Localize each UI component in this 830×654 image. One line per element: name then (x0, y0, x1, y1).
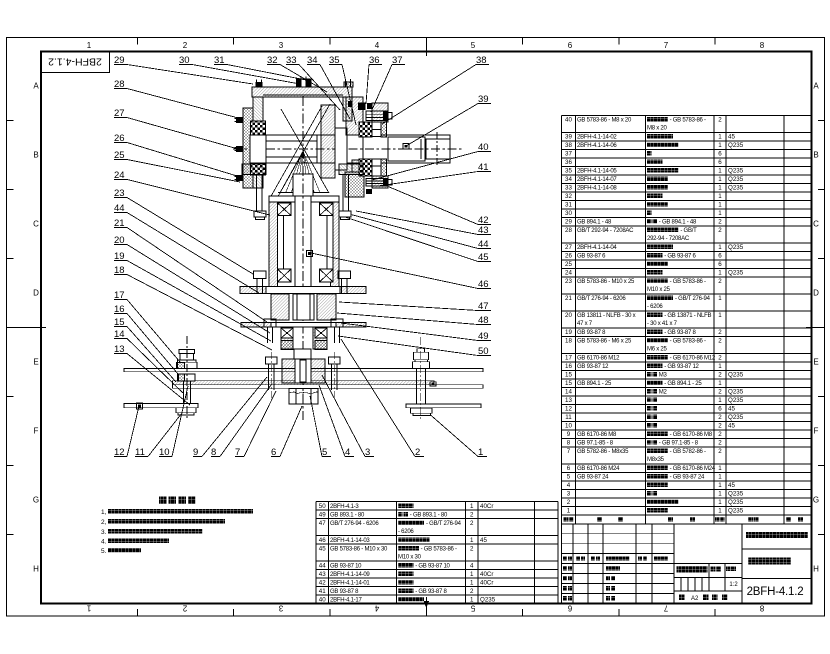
svg-text:Q235: Q235 (728, 414, 744, 421)
svg-text:38: 38 (565, 142, 572, 149)
deck far-left bolt foot (176, 408, 196, 413)
svg-text:45: 45 (728, 406, 735, 413)
svg-text:1: 1 (470, 537, 474, 544)
deck far-right bolt centerline (420, 337, 422, 419)
column bottom flange plate (240, 287, 366, 294)
svg-text:2: 2 (718, 423, 722, 430)
svg-text:GB 93-87 10: GB 93-87 10 (330, 563, 362, 569)
svg-text:50: 50 (319, 503, 326, 510)
svg-text:Q235: Q235 (480, 596, 496, 603)
vertical shaft (295, 174, 311, 290)
svg-text:36: 36 (565, 159, 572, 166)
svg-text:1: 1 (718, 363, 722, 370)
middle bearing seat right (317, 294, 336, 320)
left bearing end cap (243, 108, 253, 188)
svg-text:8: 8 (567, 440, 571, 447)
svg-text:4: 4 (375, 41, 380, 50)
top bolt right (344, 82, 353, 87)
svg-text:40: 40 (565, 117, 572, 124)
mid side bolt right (331, 319, 343, 327)
svg-text:6: 6 (718, 261, 722, 268)
svg-text:40Cr: 40Cr (480, 503, 493, 510)
svg-text:16: 16 (565, 363, 572, 370)
svg-text:45: 45 (728, 482, 735, 489)
title block signature rows labels (563, 566, 567, 570)
deck bolt center-right (329, 357, 341, 364)
svg-text:28: 28 (565, 227, 572, 234)
left bearing lower (251, 160, 266, 175)
svg-text:GB/T 292-94 - 7208AC: GB/T 292-94 - 7208AC (577, 228, 634, 234)
mid side bolt left (264, 319, 276, 327)
svg-text:1: 1 (718, 270, 722, 277)
svg-text:10: 10 (565, 423, 572, 430)
deck bolt center-left (266, 357, 278, 364)
svg-text:45: 45 (319, 545, 326, 552)
svg-text:3: 3 (278, 604, 283, 613)
svg-text:2: 2 (718, 355, 722, 362)
svg-text:43: 43 (319, 571, 326, 578)
svg-text:4: 4 (470, 562, 474, 569)
svg-text:42: 42 (319, 579, 326, 586)
svg-text:26: 26 (565, 253, 572, 260)
svg-text:1: 1 (87, 41, 92, 50)
flange nut left (254, 211, 266, 217)
deck bolt stack far-left (179, 350, 195, 354)
svg-text:18: 18 (565, 338, 572, 345)
svg-text:29: 29 (565, 219, 572, 226)
zone tick marks top (136, 38, 138, 45)
svg-text:1,: 1, (101, 509, 107, 516)
svg-text:37: 37 (565, 151, 572, 158)
svg-text:Q235: Q235 (728, 142, 744, 149)
svg-text:1:2: 1:2 (729, 582, 738, 588)
svg-text:2BFH-4.1-3: 2BFH-4.1-3 (330, 504, 359, 510)
right cap bolt lower (366, 179, 388, 187)
bevel gear pitch cone lines (276, 104, 330, 200)
svg-text:2: 2 (718, 414, 722, 421)
svg-text:1: 1 (718, 508, 722, 515)
svg-text:41: 41 (319, 588, 326, 595)
svg-text:15: 15 (565, 380, 572, 387)
svg-text:GB 5783-86 - M8 x 20: GB 5783-86 - M8 x 20 (577, 118, 632, 124)
svg-text:- GB 5783-86 -: - GB 5783-86 - (421, 546, 457, 552)
svg-text:- GB 93-87 10: - GB 93-87 10 (415, 563, 450, 569)
svg-text:1: 1 (718, 210, 722, 217)
bevel gear hub step (335, 128, 347, 170)
vertical centerline (302, 96, 304, 420)
shaft right end step (388, 137, 425, 161)
svg-text:- GB 93-87 8: - GB 93-87 8 (415, 589, 447, 595)
svg-text:E: E (33, 358, 38, 367)
column sleeve right (327, 216, 333, 270)
svg-text:1: 1 (718, 202, 722, 209)
svg-text:GB 93-87 8: GB 93-87 8 (330, 589, 359, 595)
svg-text:2BFH-4.1.2: 2BFH-4.1.2 (48, 56, 102, 68)
svg-text:2BFH-4.1-14-04: 2BFH-4.1-14-04 (577, 245, 617, 251)
svg-text:- GB 93-87 24: - GB 93-87 24 (670, 475, 705, 481)
column left wall (269, 202, 278, 290)
svg-text:4: 4 (567, 482, 571, 489)
svg-text:- 30 x 41 x 7: - 30 x 41 x 7 (647, 321, 678, 327)
svg-text:- GB 5783-86 -: - GB 5783-86 - (670, 279, 706, 285)
middle shaft section (293, 294, 314, 320)
svg-text:2BFH-4.1.2: 2BFH-4.1.2 (747, 586, 804, 598)
deck lower plate right (406, 404, 481, 408)
svg-text:M6 x 25: M6 x 25 (647, 347, 668, 353)
svg-text:35: 35 (565, 168, 572, 175)
gear cone base line (278, 192, 329, 194)
svg-text:GB 5782-86 - M8x35: GB 5782-86 - M8x35 (577, 449, 629, 455)
deck center-right bolt centerline (333, 352, 335, 400)
svg-text:- GB 894.1 - 48: - GB 894.1 - 48 (659, 220, 697, 226)
svg-text:6: 6 (567, 465, 571, 472)
shaft bore lines (266, 140, 317, 142)
svg-text:6: 6 (568, 41, 573, 50)
top-left drawing number box (41, 52, 110, 73)
svg-text:GB 5783-86 - M10 x 30: GB 5783-86 - M10 x 30 (330, 546, 388, 552)
svg-text:Q235: Q235 (728, 244, 744, 251)
svg-text:- GB 5783-86 -: - GB 5783-86 - (670, 118, 706, 124)
svg-text:2: 2 (470, 545, 474, 552)
deck lower plate left (124, 404, 198, 408)
svg-text:- GB 5782-86 -: - GB 5782-86 - (670, 449, 706, 455)
svg-text:- GB 5783-86 -: - GB 5783-86 - (670, 339, 706, 345)
svg-text:6: 6 (567, 604, 572, 613)
deck center-left bolt centerline (270, 352, 272, 400)
svg-text:B: B (813, 151, 818, 160)
inner drawing frame (41, 52, 812, 604)
centering mark right (806, 327, 825, 329)
svg-text:1: 1 (718, 142, 722, 149)
svg-text:2: 2 (567, 499, 571, 506)
svg-text:6: 6 (718, 253, 722, 260)
svg-text:6: 6 (718, 159, 722, 166)
horizontal shaft centerline (233, 148, 462, 150)
drawing title (748, 558, 791, 565)
svg-text:Q235: Q235 (728, 176, 744, 183)
hex nut (289, 389, 318, 405)
bottom clamp block (282, 359, 325, 383)
svg-text:2: 2 (718, 219, 722, 226)
svg-text:7: 7 (664, 41, 669, 50)
svg-text:- GB/T 276-94: - GB/T 276-94 (675, 296, 711, 302)
top bolt middle (297, 79, 312, 87)
svg-text:- 6206: - 6206 (398, 529, 414, 535)
sheet count row (679, 595, 685, 601)
svg-text:M8 x 20: M8 x 20 (647, 126, 668, 132)
lower shaft section (294, 349, 311, 359)
svg-text:9: 9 (567, 431, 571, 438)
zone tick marks bottom (136, 609, 138, 616)
svg-text:- GB/T 276-94: - GB/T 276-94 (426, 521, 462, 527)
svg-text:GB 5783-86 - M10 x 25: GB 5783-86 - M10 x 25 (577, 279, 635, 285)
flange nut right (339, 211, 351, 217)
middle bearing seat left (271, 294, 289, 320)
deck second plate (173, 385, 484, 389)
right BOM table (561, 115, 563, 515)
svg-text:1: 1 (718, 465, 722, 472)
top plate lower line (263, 94, 343, 96)
svg-text:32: 32 (565, 193, 572, 200)
svg-text:- 6206: - 6206 (647, 304, 663, 310)
left sleeve edge (250, 135, 253, 163)
svg-text:Q235: Q235 (728, 491, 744, 498)
svg-text:A: A (33, 82, 39, 91)
svg-text:15: 15 (565, 372, 572, 379)
svg-text:Q235: Q235 (728, 508, 744, 515)
right bearing lower (359, 159, 372, 176)
svg-text:5: 5 (470, 604, 475, 613)
svg-text:2BFH-4.1-14-01: 2BFH-4.1-14-01 (330, 580, 370, 586)
svg-text:1: 1 (718, 499, 722, 506)
housing bottom flange right (339, 164, 363, 175)
title block outline (561, 524, 563, 604)
svg-text:Q235: Q235 (728, 185, 744, 192)
svg-text:2BFH-4.1-14-03: 2BFH-4.1-14-03 (330, 538, 370, 544)
svg-text:GB 93-87 6: GB 93-87 6 (577, 254, 606, 260)
svg-text:H: H (813, 565, 819, 574)
svg-text:20: 20 (565, 312, 572, 319)
svg-text:2: 2 (183, 41, 188, 50)
column flange bolt right (338, 271, 351, 279)
left cap bolt 2 (236, 146, 243, 152)
scale label (726, 567, 731, 572)
flange stud right (342, 175, 344, 212)
svg-text:1: 1 (718, 491, 722, 498)
top bolt left (256, 82, 263, 87)
svg-text:2: 2 (718, 448, 722, 455)
svg-text:5: 5 (471, 41, 476, 50)
svg-text:30: 30 (565, 210, 572, 217)
svg-text:6: 6 (718, 151, 722, 158)
svg-text:1: 1 (718, 176, 722, 183)
housing top-right bolt marks (348, 101, 353, 107)
svg-text:GB 6170-86 M24: GB 6170-86 M24 (577, 466, 620, 472)
flange stud left (256, 175, 258, 212)
svg-text:Q235: Q235 (728, 270, 744, 277)
svg-text:31: 31 (565, 202, 572, 209)
zone tick marks left (7, 120, 14, 122)
svg-text:- GB 93-87 8: - GB 93-87 8 (664, 330, 696, 336)
svg-text:2: 2 (718, 278, 722, 285)
svg-text:1: 1 (470, 596, 474, 603)
deck upper plate (124, 369, 483, 372)
horizontal input shaft (250, 135, 450, 163)
svg-text:33: 33 (565, 185, 572, 192)
svg-text:21: 21 (565, 295, 572, 302)
svg-text:25: 25 (565, 261, 572, 268)
svg-text:GB 97.1-85 - 8: GB 97.1-85 - 8 (577, 441, 614, 447)
gear cone hatch fan (280, 151, 303, 193)
svg-text:Q235: Q235 (728, 397, 744, 404)
svg-text:2: 2 (470, 588, 474, 595)
housing bottom flange left (242, 164, 266, 175)
vertical shaft hub (293, 174, 313, 196)
svg-text:1: 1 (718, 185, 722, 192)
svg-text:M2: M2 (659, 390, 668, 396)
svg-text:6: 6 (718, 406, 722, 413)
svg-text:- GB 894.1 - 25: - GB 894.1 - 25 (664, 381, 702, 387)
lower bearing right (315, 328, 327, 338)
svg-text:2: 2 (470, 511, 474, 518)
shaft end vertical centerline (436, 132, 438, 166)
svg-text:A: A (813, 82, 819, 91)
deck bolt stack far-right (417, 349, 425, 353)
svg-text:1: 1 (718, 244, 722, 251)
clamp inner bolt (300, 360, 306, 382)
deck hatched strip (173, 381, 435, 385)
column flange bolt left (254, 271, 267, 279)
svg-text:8: 8 (760, 41, 765, 50)
svg-text:2: 2 (718, 440, 722, 447)
vertical shaft keyway (307, 251, 313, 257)
svg-text:14: 14 (565, 389, 572, 396)
svg-text:1: 1 (567, 508, 571, 515)
svg-text:1: 1 (718, 134, 722, 141)
svg-text:M10 x 25: M10 x 25 (647, 287, 671, 293)
school name (746, 532, 808, 538)
left shaft sleeve (250, 135, 266, 163)
lower bearing housing right (313, 327, 327, 349)
svg-text:1: 1 (718, 295, 722, 302)
svg-text:2BFH-4.1-14-06: 2BFH-4.1-14-06 (577, 143, 617, 149)
svg-text:GB/T 276-94 - 6206: GB/T 276-94 - 6206 (330, 521, 379, 527)
svg-text:19: 19 (565, 329, 572, 336)
bevel gear hub (hatched) (321, 105, 335, 178)
svg-text:45: 45 (728, 423, 735, 430)
title block revision header row labels (563, 556, 567, 560)
deck far-right bolt foot (411, 408, 433, 413)
svg-text:- GB 93-87 6: - GB 93-87 6 (664, 254, 696, 260)
vertical column top plate (269, 196, 339, 202)
left cap bolt 1 (236, 117, 243, 123)
svg-text:GB 6170-86 M12: GB 6170-86 M12 (577, 356, 620, 362)
stage mark label (677, 566, 708, 573)
svg-text:7: 7 (567, 448, 571, 455)
svg-text:M8x35: M8x35 (647, 457, 665, 463)
svg-text:- GB 6170-86 M12: - GB 6170-86 M12 (670, 356, 716, 362)
right BOM header row (561, 515, 563, 524)
centering mark bottom (425, 597, 427, 616)
right bearing cap upper (372, 103, 388, 122)
svg-text:39: 39 (565, 134, 572, 141)
svg-text:1: 1 (718, 380, 722, 387)
gearbox housing top plate (252, 87, 352, 97)
svg-text:2: 2 (718, 227, 722, 234)
svg-text:2BFH-4.1-14-09: 2BFH-4.1-14-09 (330, 572, 370, 578)
svg-text:2: 2 (182, 604, 187, 613)
zone tick marks right (818, 120, 825, 122)
column right wall (331, 202, 340, 290)
svg-text:3: 3 (279, 41, 284, 50)
svg-text:GB 13811 - NLFB - 30 x: GB 13811 - NLFB - 30 x (577, 313, 636, 319)
svg-text:GB 894.1 - 25: GB 894.1 - 25 (577, 381, 612, 387)
svg-text:1: 1 (470, 503, 474, 510)
svg-text:GB 6170-86 M8: GB 6170-86 M8 (577, 432, 617, 438)
svg-text:2BFH-4.1-14-08: 2BFH-4.1-14-08 (577, 186, 617, 192)
svg-text:45: 45 (480, 537, 487, 544)
svg-text:Q235: Q235 (728, 168, 744, 175)
svg-text:1: 1 (718, 168, 722, 175)
svg-text:40: 40 (319, 596, 326, 603)
svg-text:40Cr: 40Cr (480, 579, 493, 586)
svg-text:4.: 4. (101, 539, 107, 546)
svg-text:13: 13 (565, 397, 572, 404)
svg-text:D: D (813, 289, 819, 298)
svg-text:- GB 13871 - NLFB: - GB 13871 - NLFB (664, 313, 711, 319)
svg-text:17: 17 (565, 355, 572, 362)
svg-text:C: C (813, 220, 819, 229)
svg-text:1: 1 (470, 579, 474, 586)
clamp slot (295, 359, 311, 383)
svg-text:3.: 3. (101, 529, 107, 536)
svg-text:11: 11 (565, 414, 572, 421)
column sleeve left (278, 216, 284, 270)
svg-text:7: 7 (663, 604, 668, 613)
svg-text:292-94 - 7208AC: 292-94 - 7208AC (647, 236, 690, 242)
lower seal right (cross hatch) (315, 341, 327, 350)
svg-text:1: 1 (718, 397, 722, 404)
svg-text:A2: A2 (691, 596, 699, 602)
svg-text:3: 3 (567, 491, 571, 498)
svg-text:40Cr: 40Cr (480, 571, 493, 578)
svg-text:M10 x 30: M10 x 30 (398, 554, 422, 560)
deck far-left bolt centerline (186, 336, 188, 418)
right cap bolt upper (366, 111, 388, 121)
svg-text:5.: 5. (101, 548, 107, 555)
gearbox left wall (253, 97, 263, 188)
svg-text:2BFH-4.1-14-05: 2BFH-4.1-14-05 (577, 169, 617, 175)
right bearing cap lower (372, 176, 388, 188)
svg-text:GB 893.1 - 80: GB 893.1 - 80 (330, 512, 365, 518)
svg-text:D: D (33, 289, 39, 298)
svg-text:1: 1 (718, 474, 722, 481)
title block middle section (674, 563, 742, 565)
shaft keyway mark (403, 144, 409, 150)
svg-text:2: 2 (718, 372, 722, 379)
svg-text:8: 8 (759, 604, 764, 613)
middle support plate (241, 323, 366, 328)
svg-text:Q235: Q235 (728, 389, 744, 396)
svg-text:- GB 93-87 12: - GB 93-87 12 (664, 364, 699, 370)
weight label (711, 567, 716, 572)
svg-text:2,: 2, (101, 519, 107, 526)
svg-text:M3: M3 (659, 373, 668, 379)
svg-text:B: B (33, 151, 38, 160)
svg-text:- GB 6170-86 M8: - GB 6170-86 M8 (670, 432, 713, 438)
svg-text:44: 44 (319, 562, 326, 569)
svg-text:2: 2 (718, 338, 722, 345)
svg-text:1: 1 (718, 312, 722, 319)
left bearing upper (251, 121, 266, 135)
svg-text:2BFH-4.1-17: 2BFH-4.1-17 (330, 597, 363, 603)
svg-text:2: 2 (718, 389, 722, 396)
svg-text:Q235: Q235 (728, 499, 744, 506)
svg-text:GB 894.1 - 48: GB 894.1 - 48 (577, 220, 612, 226)
svg-text:GB 93-87 8: GB 93-87 8 (577, 330, 606, 336)
svg-text:46: 46 (319, 537, 326, 544)
svg-text:49: 49 (319, 511, 326, 518)
right bearing upper (359, 122, 372, 137)
svg-text:F: F (34, 427, 39, 436)
svg-text:Q235: Q235 (728, 372, 744, 379)
deck tiny bolt left (137, 403, 143, 409)
svg-text:2: 2 (718, 329, 722, 336)
lower seal left (cross hatch) (281, 341, 293, 350)
svg-text:12: 12 (565, 406, 572, 413)
technical requirements heading (159, 497, 167, 505)
svg-text:5: 5 (567, 474, 571, 481)
